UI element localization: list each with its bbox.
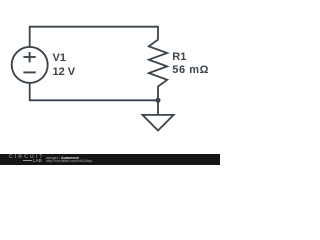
ground	[142, 100, 173, 130]
wire from V1 - terminal to R1 bottom (bottom net)	[30, 83, 158, 100]
resistor R1 (56 mOhm)	[149, 40, 167, 101]
watermark text	[46, 156, 79, 160]
CircuitLab logo	[9, 154, 45, 160]
wire from V1 + terminal to R1 top (top net)	[30, 27, 158, 47]
label R1 / 56 mOhm	[172, 51, 209, 78]
junction node (R1 bottom / ground)	[156, 98, 161, 103]
voltage source V1 (12 V)	[12, 47, 48, 83]
label V1 / 12 V	[53, 52, 76, 79]
watermark bar	[0, 154, 220, 165]
